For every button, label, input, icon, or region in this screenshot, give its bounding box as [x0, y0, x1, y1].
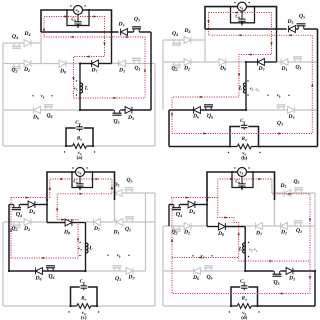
transistor Q5 (c) — [126, 190, 131, 193]
svg-text:D4: D4 — [188, 209, 195, 215]
wire box right ext black (b) — [276, 29, 278, 62]
svg-text:D8: D8 — [63, 230, 70, 236]
svg-text:D6: D6 — [32, 115, 40, 121]
transistor Q1 (d) — [295, 223, 300, 226]
svg-text:Q2: Q2 — [11, 226, 17, 232]
node v_b across Q3 (b) — [267, 95, 268, 96]
capacitor C_o (c) — [81, 286, 87, 288]
wire row B gray (b) — [163, 61, 247, 63]
wire red current loop (c) — [11, 179, 112, 258]
capacitor C_o (d) — [241, 286, 247, 288]
wire row C gray (a) — [3, 109, 80, 111]
resistor R_o (a) — [73, 144, 87, 149]
svg-text:(a): (a) — [77, 155, 83, 161]
wire row A left gray (b) — [163, 39, 205, 41]
capacitor C_b (b) — [241, 11, 243, 19]
inductor L (c) — [86, 243, 89, 253]
transistor Q6 (a) — [46, 107, 51, 110]
diode D3 (d) — [286, 268, 293, 275]
svg-text:D5: D5 — [117, 22, 124, 28]
node v_o (b) — [228, 152, 229, 153]
svg-text:D1: D1 — [280, 230, 287, 236]
svg-text:D4: D4 — [183, 28, 190, 34]
wire left rail gray (c) — [2, 222, 4, 306]
svg-text:D8: D8 — [59, 69, 66, 75]
svg-text:D2: D2 — [183, 66, 190, 72]
diode D5 (d) — [284, 190, 291, 197]
diode D2 (c) — [24, 219, 31, 226]
voltage source v_b (a) — [74, 6, 83, 15]
diode D2 (b) — [184, 59, 191, 66]
svg-text:Q6: Q6 — [206, 275, 213, 281]
diode D2 (a) — [24, 60, 31, 67]
node v_o (a) — [64, 151, 65, 152]
diode D2 (d) — [184, 223, 191, 230]
resistor R_o (b) — [237, 144, 251, 149]
wire row C black (b) — [169, 109, 246, 111]
wire row B gray (c) — [3, 221, 47, 223]
svg-text:D1: D1 — [280, 66, 287, 72]
transistor Q3 (b) — [278, 107, 283, 110]
wire bottom rail black (d) — [258, 305, 316, 307]
diode D8 (a) — [59, 60, 66, 67]
wire D7 row (b) — [246, 61, 258, 63]
inductor L (b) — [243, 83, 246, 93]
transistor Q1 (a) — [134, 60, 139, 63]
svg-text:(c): (c) — [81, 315, 87, 320]
wire right outer rail gray (c) — [154, 193, 156, 306]
wire output box bottom (a) — [66, 145, 73, 147]
transistor Q4 (c) — [14, 205, 19, 208]
capacitor C_o (b) — [241, 125, 247, 127]
svg-text:Q1: Q1 — [134, 66, 140, 72]
svg-text:D6: D6 — [34, 276, 42, 282]
diode D1 (c) — [116, 219, 123, 226]
svg-text:D8: D8 — [219, 66, 226, 72]
wire right rail gray (a) — [154, 64, 156, 147]
wire C_b loop (c) — [72, 172, 93, 188]
svg-text:Q1: Q1 — [125, 227, 131, 233]
transistor Q2 (c) — [14, 222, 19, 225]
diode D7 (d) — [256, 223, 263, 230]
node v_g (d) — [192, 255, 193, 256]
diode D5 (a) — [121, 29, 128, 36]
diode D8 (c) — [65, 219, 72, 226]
svg-text:Q4: Q4 — [176, 212, 182, 218]
wire box right ext (a) — [111, 32, 113, 64]
svg-text:Q6: Q6 — [46, 113, 53, 119]
wire inductor branch (d) — [244, 227, 246, 272]
transistor Q5 (a) — [134, 29, 139, 32]
wire rail to D5 (a) — [41, 31, 119, 33]
wire row A left black (c) — [9, 204, 14, 206]
wire output box (b) — [230, 127, 240, 147]
svg-text:D2: D2 — [23, 226, 30, 232]
svg-text:D5: D5 — [112, 182, 119, 188]
diode D7 (b) — [258, 59, 265, 66]
diode D3 (b) — [288, 107, 295, 114]
wire left lower rail black (b) — [168, 110, 170, 147]
svg-text:(b): (b) — [241, 156, 247, 162]
resistor R_o (c) — [77, 304, 91, 309]
node v_g (a) — [32, 95, 33, 96]
wire red current loop (a) — [44, 17, 145, 99]
svg-text:D6: D6 — [192, 114, 200, 120]
diode D3 (a) — [125, 107, 132, 114]
svg-text:Q4: Q4 — [16, 212, 22, 218]
wire output box bottom (d) — [231, 305, 237, 307]
wire row B gray (d) — [163, 225, 207, 227]
wire battery box outline (d) — [207, 172, 275, 200]
diode D6 (c) — [36, 268, 43, 275]
wire red current loop (d) — [171, 179, 310, 294]
svg-text:Q3: Q3 — [273, 280, 279, 286]
wire row C gray (d) — [163, 270, 245, 272]
wire right rail black (a) — [150, 32, 152, 110]
wire row C black (d) — [245, 270, 274, 272]
wire left rail black (c) — [8, 205, 10, 272]
node v_o (d) — [229, 311, 230, 312]
wire left rail black (d) — [168, 205, 170, 227]
diode D8 (d) — [219, 223, 226, 230]
voltage source v_b (d) — [238, 168, 247, 177]
svg-text:Q5: Q5 — [293, 179, 299, 185]
svg-text:D5: D5 — [286, 19, 293, 25]
wire output box bottom (c) — [71, 305, 77, 307]
inductor L (d) — [243, 243, 246, 253]
wire D7 row (a) — [80, 63, 92, 65]
svg-text:Q2: Q2 — [171, 66, 177, 72]
wire D8 row (d) — [207, 226, 219, 228]
transistor Q4 (b) — [174, 40, 179, 43]
svg-text:D1: D1 — [112, 230, 119, 236]
transistor Q4 (d) — [174, 205, 179, 208]
svg-text:D7: D7 — [255, 231, 263, 237]
svg-text:Q3: Q3 — [277, 121, 283, 127]
wire output box (c) — [71, 287, 80, 306]
inductor L (a) — [80, 83, 83, 93]
svg-text:D3: D3 — [127, 115, 134, 121]
diode D5 (c) — [115, 190, 122, 197]
diode D6 (a) — [34, 107, 41, 114]
wire box left ext gray (a) — [40, 32, 42, 64]
wire bottom rail gray (d) — [163, 305, 231, 307]
svg-text:Q5: Q5 — [134, 17, 140, 23]
transistor Q2 (a) — [14, 64, 19, 67]
svg-text:D6: D6 — [192, 275, 200, 281]
svg-text:Q1: Q1 — [296, 228, 302, 234]
transistor Q3 (d) — [274, 271, 279, 274]
wire left rail gray (d) — [162, 226, 164, 306]
wire output box (a) — [66, 128, 76, 146]
svg-text:Q6: Q6 — [48, 274, 55, 280]
wire battery box outline (a) — [41, 10, 112, 32]
transistor Q6 (c) — [48, 268, 53, 271]
diode D4 (d) — [188, 201, 195, 208]
wire C_b loop (d) — [232, 172, 253, 188]
diode D1 (b) — [281, 59, 288, 66]
resistor R_o (d) — [237, 304, 251, 309]
svg-text:Q2: Q2 — [11, 68, 17, 74]
svg-text:(d): (d) — [241, 315, 247, 320]
svg-text:D4: D4 — [23, 31, 30, 37]
svg-text:D5: D5 — [279, 183, 286, 189]
transistor Q6 (d) — [206, 268, 211, 271]
wire box left ext black (c) — [46, 200, 48, 223]
capacitor C_b (c) — [79, 176, 81, 183]
svg-text:Q3: Q3 — [113, 119, 119, 125]
svg-text:D3: D3 — [127, 275, 134, 281]
wire rail to D5 (b) — [205, 28, 287, 30]
svg-text:Q1: Q1 — [295, 65, 301, 71]
svg-text:Q5: Q5 — [126, 178, 132, 184]
wire red current loop (b) — [172, 13, 312, 134]
wire bottom rail gray (c) — [3, 305, 71, 307]
svg-text:Q4: Q4 — [172, 31, 178, 37]
wire box left ext gray (b) — [204, 29, 206, 62]
svg-text:Q5: Q5 — [299, 14, 305, 20]
voltage source v_b (c) — [76, 168, 85, 177]
wire row C black (c) — [9, 270, 86, 272]
wire battery box outline (c) — [47, 172, 115, 200]
wire right rail black (b) — [317, 29, 319, 147]
diode D6 (d) — [194, 268, 201, 275]
wire row C gray (c) — [86, 270, 146, 272]
wire row A left gray (a) — [3, 42, 41, 44]
svg-text:Q3: Q3 — [115, 276, 121, 282]
wire row A right gray (d) — [275, 192, 316, 194]
wire right rail gray (d) — [314, 193, 316, 271]
wire red left stub (d) — [172, 257, 239, 259]
wire right inner rail gray (c) — [145, 193, 147, 271]
svg-text:D1: D1 — [118, 68, 125, 74]
transistor Q2 (d) — [174, 226, 179, 229]
diode D4 (c) — [28, 201, 35, 208]
wire C_b loop (a) — [67, 10, 89, 26]
svg-text:D3: D3 — [287, 114, 294, 120]
svg-text:Q6: Q6 — [207, 114, 214, 120]
svg-text:D2: D2 — [183, 230, 190, 236]
wire right rail black (d) — [314, 271, 316, 306]
svg-text:D4: D4 — [28, 209, 35, 215]
node v_o (c) — [68, 311, 69, 312]
wire row A right gray (c) — [115, 192, 156, 194]
transistor Q5 (b) — [298, 26, 303, 29]
svg-text:Q4: Q4 — [12, 34, 18, 40]
wire row B gray (a) — [3, 63, 80, 65]
transistor Q3 (a) — [114, 110, 119, 113]
wire inductor branch (c) — [85, 223, 87, 272]
transistor Q4 (a) — [14, 43, 19, 46]
diode D1 (a) — [119, 60, 126, 67]
wire battery box outline (b) — [205, 7, 277, 29]
capacitor C_b (a) — [77, 14, 79, 21]
wire row A left black (d) — [169, 204, 174, 206]
wire bottom rail gray (a) — [3, 145, 66, 147]
transistor Q1 (b) — [295, 59, 300, 62]
wire box right ext gray (d) — [274, 193, 276, 226]
svg-text:D2: D2 — [23, 67, 30, 73]
wire bottom rail black (b) — [169, 146, 230, 148]
wire inductor branch (b) — [245, 62, 247, 110]
diode D6 (b) — [194, 107, 201, 114]
diode D5 (b) — [289, 26, 296, 33]
wire box left ext black (d) — [206, 200, 208, 227]
wire inductor branch (a) — [79, 64, 81, 111]
transistor Q5 (d) — [296, 190, 301, 193]
diode D8 (b) — [219, 59, 226, 66]
wire left rail gray (b) — [162, 40, 164, 110]
diode D4 (a) — [24, 40, 31, 47]
wire row C black (a) — [80, 109, 114, 111]
diode D7 (c) — [94, 219, 101, 226]
transistor Q6 (b) — [206, 107, 211, 110]
diode D7 (a) — [92, 60, 99, 67]
wire box right ext gray (c) — [114, 193, 116, 222]
transistor Q2 (b) — [174, 62, 179, 65]
svg-text:D3: D3 — [288, 276, 295, 282]
diode D4 (b) — [184, 37, 191, 44]
svg-text:D7: D7 — [90, 68, 98, 74]
transistor Q3 (c) — [114, 268, 119, 271]
capacitor C_o (a) — [76, 127, 82, 129]
capacitor C_b (d) — [241, 176, 243, 183]
svg-text:L: L — [84, 86, 89, 92]
wire red inner path (d) — [218, 198, 310, 262]
diode D1 (d) — [281, 223, 288, 230]
svg-text:L: L — [88, 246, 93, 252]
wire C_b loop (b) — [231, 7, 255, 23]
wire output box bottom (b) — [230, 146, 237, 148]
node v_b across Q3 (c) — [107, 255, 108, 256]
diode D3 (c) — [126, 268, 133, 275]
wire row C gray (b) — [247, 109, 318, 111]
wire D8 row (c) — [47, 222, 65, 224]
transistor Q1 (c) — [127, 219, 132, 222]
svg-text:D7: D7 — [257, 66, 265, 72]
svg-text:D8: D8 — [217, 231, 224, 237]
svg-text:D7: D7 — [93, 226, 101, 232]
wire left rail gray (a) — [2, 43, 4, 146]
voltage source v_b (b) — [238, 2, 247, 11]
wire output box (d) — [231, 287, 240, 306]
